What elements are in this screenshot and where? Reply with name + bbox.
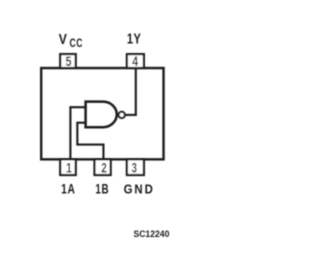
svg-text:5: 5	[66, 54, 72, 70]
svg-text:V: V	[59, 31, 68, 48]
svg-text:SC12240: SC12240	[133, 229, 169, 239]
svg-text:1B: 1B	[95, 181, 109, 197]
svg-text:CC: CC	[70, 38, 84, 51]
svg-text:1Y: 1Y	[127, 30, 141, 47]
svg-text:3: 3	[132, 161, 138, 176]
svg-text:2: 2	[101, 161, 107, 176]
svg-text:GND: GND	[124, 182, 155, 197]
svg-text:1: 1	[66, 160, 72, 176]
svg-text:4: 4	[132, 54, 138, 69]
svg-text:1A: 1A	[61, 181, 75, 197]
